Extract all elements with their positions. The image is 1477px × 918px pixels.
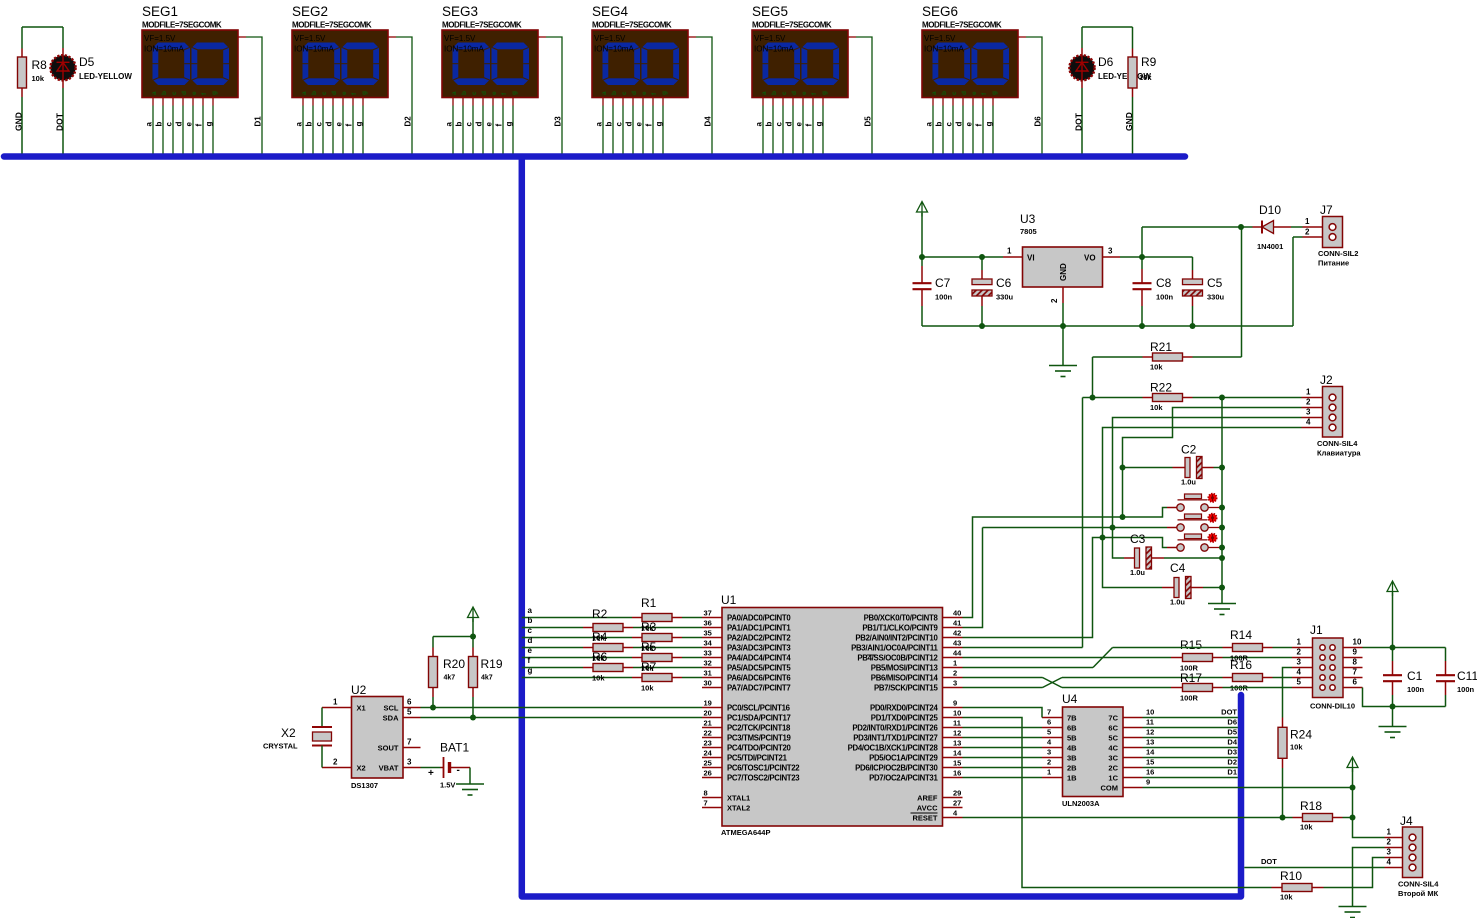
svg-text:8: 8 — [704, 789, 708, 798]
J4 pin 4 wire to bus (DOT) — [1385, 867, 1403, 869]
wire VI rail — [922, 256, 1003, 258]
svg-text:X1: X1 — [357, 703, 366, 712]
svg-text:R4: R4 — [592, 630, 608, 644]
svg-text:D4: D4 — [1227, 738, 1237, 747]
svg-text:22: 22 — [704, 729, 712, 738]
resistor R3 10k (segment c) — [522, 637, 632, 639]
ground (C1) — [1392, 707, 1394, 727]
resistor R6 10k (segment f) — [522, 667, 583, 669]
svg-text:19: 19 — [704, 699, 712, 708]
svg-text:R7: R7 — [641, 660, 657, 674]
svg-text:10k: 10k — [1280, 893, 1293, 902]
svg-text:6C: 6C — [1108, 723, 1118, 732]
svg-text:21: 21 — [704, 719, 712, 728]
svg-text:1: 1 — [1305, 217, 1310, 226]
wire PB6/PB7 X crossover — [963, 677, 1043, 679]
svg-text:CONN-SIL4: CONN-SIL4 — [1317, 439, 1358, 448]
svg-text:R2: R2 — [592, 607, 608, 621]
wire J2 pin 4 to C4 — [1302, 427, 1323, 429]
resistor R9 — [1132, 27, 1134, 49]
svg-text:10k: 10k — [32, 74, 45, 83]
svg-text:C8: C8 — [1156, 276, 1172, 290]
svg-text:R3: R3 — [641, 620, 657, 634]
svg-text:SEG5: SEG5 — [752, 4, 788, 19]
resistor R1 10k (segment a) — [522, 617, 632, 619]
resistor R2 10k (segment b) — [522, 627, 583, 629]
svg-text:DOT: DOT — [1221, 708, 1237, 717]
svg-text:J7: J7 — [1320, 203, 1333, 217]
wire SDA to U1 — [421, 717, 703, 719]
push button SW2 — [1185, 514, 1202, 519]
U4 pin 10 7C — [1123, 717, 1143, 719]
svg-text:D3: D3 — [554, 116, 563, 127]
wire U1 PD7 to U4 1B — [963, 777, 1043, 779]
svg-text:SEG1: SEG1 — [142, 4, 178, 19]
svg-text:10: 10 — [1146, 708, 1154, 717]
junction dots (J4 area) — [1280, 815, 1286, 821]
svg-text:10: 10 — [953, 709, 961, 718]
svg-text:PB0/XCK0/T0/PCINT8: PB0/XCK0/T0/PCINT8 — [864, 613, 939, 622]
7-seg display SEG6 (MODFILE=7SEGCOMK) — [922, 4, 1042, 154]
svg-text:PD7/OC2A/PCINT31: PD7/OC2A/PCINT31 — [869, 773, 938, 782]
svg-text:5: 5 — [1297, 678, 1302, 687]
svg-text:PC0/SCL/PCINT16: PC0/SCL/PCINT16 — [727, 703, 791, 712]
svg-text:D5: D5 — [864, 116, 873, 127]
U1 pin 35 PA2/ADC2/PCINT2 — [702, 637, 722, 639]
U1 pin 27 AVCC — [943, 807, 963, 809]
wire U4 2C to bus (D2) — [1143, 767, 1238, 769]
svg-text:16: 16 — [953, 769, 961, 778]
svg-text:PA0/ADC0/PCINT0: PA0/ADC0/PCINT0 — [727, 613, 791, 622]
svg-text:DOT: DOT — [55, 112, 65, 131]
resistor R18 10k — [1283, 817, 1293, 819]
J1 right stubs 9,8,7 (nc) — [1343, 657, 1363, 659]
svg-text:1N4001: 1N4001 — [1257, 242, 1283, 251]
crystal X2 — [321, 708, 323, 728]
svg-text:3: 3 — [1297, 658, 1302, 667]
svg-text:R8: R8 — [32, 58, 48, 72]
svg-text:GND: GND — [1124, 112, 1134, 131]
wire VO to D10 rail — [1141, 227, 1143, 257]
svg-text:R5: R5 — [641, 640, 657, 654]
svg-text:C6: C6 — [996, 276, 1012, 290]
U1 pin 14 PD5/OC1A/PCINT29 — [943, 757, 963, 759]
svg-text:R15: R15 — [1180, 638, 1202, 652]
svg-text:MODFILE=7SEGCOMK: MODFILE=7SEGCOMK — [592, 21, 672, 30]
svg-text:-: - — [457, 765, 460, 776]
svg-text:AREF: AREF — [917, 793, 938, 802]
ground (keypad) — [1208, 604, 1236, 615]
diode D10 1N4001 — [1253, 226, 1263, 228]
svg-text:C11: C11 — [1457, 669, 1477, 683]
J4 pin 3 wire to R10 — [1385, 857, 1403, 859]
J1 pin 10 wire to C1 node — [1343, 647, 1363, 649]
junction dots (U3 area) — [919, 254, 925, 260]
svg-text:J1: J1 — [1310, 623, 1323, 637]
svg-text:29: 29 — [953, 789, 961, 798]
U4 pin 16 1C — [1123, 777, 1143, 779]
svg-text:1: 1 — [1306, 388, 1311, 397]
U4 pin 7 7B — [1042, 717, 1063, 719]
U1 pin 4 RESET — [943, 817, 963, 819]
svg-text:5: 5 — [1047, 728, 1051, 737]
svg-text:D10: D10 — [1259, 203, 1281, 217]
power +V arrow (R19/R20) — [468, 607, 479, 618]
svg-text:4C: 4C — [1108, 743, 1118, 752]
svg-text:1: 1 — [1297, 638, 1302, 647]
wire U1 PD0 to U4 7B — [963, 708, 1043, 718]
svg-text:12: 12 — [1146, 728, 1154, 737]
wire U1 PD1 to R10 (long route) — [963, 718, 1272, 888]
svg-text:6B: 6B — [1067, 723, 1077, 732]
resistor R21 10k — [1143, 356, 1153, 358]
svg-text:+: + — [428, 768, 434, 779]
svg-text:100n: 100n — [1457, 685, 1475, 694]
svg-text:U1: U1 — [721, 593, 737, 607]
svg-text:PC4/TDO/PCINT20: PC4/TDO/PCINT20 — [727, 743, 791, 752]
svg-text:SEG6: SEG6 — [922, 4, 958, 19]
svg-text:PA7/ADC7/PCINT7: PA7/ADC7/PCINT7 — [727, 683, 790, 692]
svg-text:e: e — [528, 646, 533, 655]
svg-text:6: 6 — [1353, 678, 1358, 687]
resistor R5 10k (segment e) — [522, 657, 632, 659]
svg-text:MODFILE=7SEGCOMK: MODFILE=7SEGCOMK — [142, 21, 222, 30]
svg-text:U3: U3 — [1020, 212, 1036, 226]
svg-text:VBAT: VBAT — [379, 763, 399, 772]
capacitor C1 100n — [1392, 648, 1394, 662]
svg-text:MODFILE=7SEGCOMK: MODFILE=7SEGCOMK — [442, 21, 522, 30]
U1 pin 36 PA1/ADC1/PCINT1 — [702, 627, 722, 629]
svg-text:C7: C7 — [935, 276, 951, 290]
svg-text:1: 1 — [1007, 247, 1012, 256]
svg-text:33: 33 — [704, 649, 712, 658]
wire J2 pin 3 to C3 — [1302, 417, 1323, 419]
svg-text:PA3/ADC3/PCINT3: PA3/ADC3/PCINT3 — [727, 643, 791, 652]
svg-text:7: 7 — [704, 799, 708, 808]
svg-text:D2: D2 — [1227, 758, 1237, 767]
svg-text:GND: GND — [1059, 263, 1068, 281]
svg-text:PB2/AIN0/INT2/PCINT10: PB2/AIN0/INT2/PCINT10 — [855, 633, 938, 642]
svg-text:c: c — [528, 626, 533, 635]
svg-text:2: 2 — [333, 758, 338, 767]
resistor R20 4k7 — [432, 697, 434, 708]
svg-text:5B: 5B — [1067, 733, 1077, 742]
svg-text:3: 3 — [407, 758, 412, 767]
svg-text:RESET: RESET — [912, 813, 937, 822]
U1 pin 20 PC1/SDA/PCINT17 — [702, 717, 722, 719]
U1 pin 13 PD4/OC1B/XCK1/PCINT28 — [943, 747, 963, 749]
resistor R10 10k — [1272, 887, 1283, 889]
svg-text:PC7/TOSC2/PCINT23: PC7/TOSC2/PCINT23 — [727, 773, 800, 782]
U1 pin 15 PD6/ICP/OC2B/PCINT30 — [943, 767, 963, 769]
svg-text:PC3/TMS/PCINT19: PC3/TMS/PCINT19 — [727, 733, 791, 742]
U1 pin 9 PD0/RXD0/PCINT24 — [943, 707, 963, 709]
svg-text:PD0/RXD0/PCINT24: PD0/RXD0/PCINT24 — [870, 703, 939, 712]
power +V arrow (COM/R18) — [1347, 757, 1358, 768]
U4 pin 9 COM — [1123, 787, 1143, 789]
svg-text:PC6/TOSC1/PCINT22: PC6/TOSC1/PCINT22 — [727, 763, 800, 772]
svg-text:1: 1 — [1387, 828, 1392, 837]
svg-text:25: 25 — [704, 759, 712, 768]
resistor R24 10k — [1282, 718, 1284, 728]
wire U4 3C to bus (D3) — [1143, 757, 1238, 759]
svg-text:11: 11 — [1146, 718, 1154, 727]
J1 pin 3 wire to R24 — [1292, 667, 1313, 669]
wire U4 4C to bus (D4) — [1143, 747, 1238, 749]
svg-text:20: 20 — [704, 709, 712, 718]
svg-text:6: 6 — [407, 698, 412, 707]
svg-text:PA5/ADC5/PCINT5: PA5/ADC5/PCINT5 — [727, 663, 791, 672]
capacitor C11 100n — [1393, 647, 1446, 649]
svg-text:R14: R14 — [1230, 628, 1252, 642]
svg-text:9: 9 — [1146, 778, 1150, 787]
7-seg display SEG3 (MODFILE=7SEGCOMK) — [442, 4, 562, 154]
svg-text:PB6/MISO/PCINT14: PB6/MISO/PCINT14 — [871, 673, 939, 682]
wire U4 6C to bus (D6) — [1143, 727, 1238, 729]
svg-text:3: 3 — [1387, 848, 1392, 857]
svg-text:PA4/ADC4/PCINT4: PA4/ADC4/PCINT4 — [727, 653, 791, 662]
svg-text:AVCC: AVCC — [917, 803, 938, 812]
svg-text:2: 2 — [1305, 228, 1310, 237]
svg-text:R1: R1 — [641, 596, 657, 610]
svg-text:U2: U2 — [351, 683, 367, 697]
U4 pin 5 5B — [1042, 737, 1063, 739]
svg-text:30: 30 — [704, 679, 712, 688]
svg-text:PD6/ICP/OC2B/PCINT30: PD6/ICP/OC2B/PCINT30 — [855, 763, 938, 772]
U2 pin 1 X1 — [322, 707, 352, 709]
wire J2 pin 2 to C2/key column — [1302, 407, 1323, 409]
svg-text:100n: 100n — [1156, 293, 1174, 302]
U1 pin 25 PC6/TOSC1/PCINT22 — [702, 767, 722, 769]
svg-text:8: 8 — [1353, 658, 1358, 667]
resistor R14 100R — [1223, 647, 1233, 649]
U1 pin 22 PC3/TMS/PCINT19 — [702, 737, 722, 739]
svg-text:VI: VI — [1027, 254, 1035, 263]
J4 pin 2 wire to ground — [1385, 847, 1403, 849]
svg-text:b: b — [528, 616, 533, 625]
svg-text:10k: 10k — [1290, 743, 1303, 752]
bus: vertical + bottom + right riser — [522, 157, 1241, 897]
svg-text:MODFILE=7SEGCOMK: MODFILE=7SEGCOMK — [292, 21, 372, 30]
connector J2 CONN-SIL4 — [1323, 387, 1343, 438]
svg-text:R17: R17 — [1180, 671, 1202, 685]
svg-text:10k: 10k — [1150, 403, 1163, 412]
svg-text:42: 42 — [953, 629, 961, 638]
svg-text:C3: C3 — [1130, 532, 1146, 546]
svg-text:PC2/TCK/PCINT18: PC2/TCK/PCINT18 — [727, 723, 791, 732]
wire GND rail bottom — [922, 325, 1293, 327]
svg-text:BAT1: BAT1 — [440, 741, 469, 755]
U1 pin 40 PB0/XCK0/T0/PCINT8 — [943, 617, 963, 619]
U2 pin 2 X2 — [322, 767, 352, 769]
wire U4 7C to bus (DOT) — [1143, 717, 1238, 719]
keypad ground rail — [1221, 398, 1223, 604]
U2 pin 6 SCL — [403, 707, 421, 709]
svg-text:D1: D1 — [1227, 768, 1237, 777]
U4 pin 6 6B — [1042, 727, 1063, 729]
U1 pin 1 PB5/MOSI/PCINT13 — [943, 667, 963, 669]
7-seg display SEG2 (MODFILE=7SEGCOMK) — [292, 4, 412, 154]
U4 pin 1 1B — [1042, 777, 1063, 779]
J1 pin 6 wire to gnd node — [1343, 687, 1363, 689]
power +V arrow (U3 input) — [917, 202, 928, 213]
svg-text:5: 5 — [407, 708, 412, 717]
resistor R16 100R — [1223, 677, 1233, 679]
svg-text:4k7: 4k7 — [481, 675, 493, 682]
svg-text:2: 2 — [953, 669, 957, 678]
U4 pin 2 2B — [1042, 767, 1063, 769]
svg-text:C4: C4 — [1170, 561, 1186, 575]
U2 pin 7 SOUT (nc) — [403, 747, 421, 749]
resistor R22 10k — [1143, 397, 1153, 399]
svg-text:7805: 7805 — [1020, 227, 1037, 236]
capacitor C4 1.0u — [1162, 587, 1174, 589]
svg-text:10k: 10k — [592, 674, 605, 683]
svg-text:D6: D6 — [1034, 116, 1043, 127]
svg-text:14: 14 — [953, 749, 962, 758]
svg-text:CONN-DIL10: CONN-DIL10 — [1310, 702, 1355, 711]
U1 pin 23 PC4/TDO/PCINT20 — [702, 747, 722, 749]
svg-text:PB3/AIN1/OC0A/PCINT11: PB3/AIN1/OC0A/PCINT11 — [851, 643, 938, 652]
svg-text:PB5/MOSI/PCINT13: PB5/MOSI/PCINT13 — [871, 663, 939, 672]
svg-text:2C: 2C — [1108, 763, 1118, 772]
svg-text:PA6/ADC6/PCINT6: PA6/ADC6/PCINT6 — [727, 673, 791, 682]
U3 pin 2 + ground — [1062, 287, 1064, 303]
svg-text:10k: 10k — [1139, 73, 1152, 82]
svg-text:1.5V: 1.5V — [440, 781, 455, 790]
svg-text:3C: 3C — [1108, 753, 1118, 762]
svg-text:D6: D6 — [1098, 55, 1114, 69]
resistor R4 10k (segment d) — [522, 647, 583, 649]
push button SW1 — [1185, 494, 1202, 499]
svg-text:1.0u: 1.0u — [1170, 598, 1185, 607]
svg-text:J4: J4 — [1400, 814, 1413, 828]
svg-text:10: 10 — [1353, 638, 1362, 647]
junction dots (keypad) — [1090, 395, 1096, 401]
wire U1 PD5 to U4 3B — [963, 757, 1043, 759]
U1 pin 42 PB2/AIN0/INT2/PCINT10 — [943, 637, 963, 639]
svg-text:2: 2 — [1306, 398, 1311, 407]
svg-text:1: 1 — [333, 698, 338, 707]
svg-text:f: f — [528, 656, 531, 665]
U1 pin 37 PA0/ADC0/PCINT0 — [702, 617, 722, 619]
LED D6 (LED-YELLOW) — [1081, 27, 1083, 48]
svg-text:SCL: SCL — [384, 703, 399, 712]
capacitor C2 1.0u — [1123, 467, 1173, 469]
svg-text:2B: 2B — [1067, 763, 1077, 772]
connector J1 CONN-DIL10 — [1313, 638, 1344, 698]
svg-text:CRYSTAL: CRYSTAL — [263, 742, 298, 751]
svg-text:1.0u: 1.0u — [1130, 568, 1145, 577]
wire R8/D5 top link — [22, 26, 63, 28]
U4 pin 14 3C — [1123, 757, 1143, 759]
svg-text:Второй МК: Второй МК — [1398, 889, 1439, 898]
U4 pin 11 6C — [1123, 727, 1143, 729]
svg-text:13: 13 — [1146, 738, 1154, 747]
svg-text:R10: R10 — [1280, 869, 1302, 883]
capacitor C8 100n — [1141, 257, 1143, 269]
svg-text:11: 11 — [953, 719, 961, 728]
svg-text:PD2/INT0/RXD1/PCINT26: PD2/INT0/RXD1/PCINT26 — [852, 723, 938, 732]
svg-text:D3: D3 — [1227, 748, 1237, 757]
svg-text:U4: U4 — [1062, 692, 1078, 706]
junction dots (U2 area) — [430, 705, 436, 711]
connector J7 CONN-SIL2 — [1323, 217, 1343, 248]
wire PB4 to R15 — [963, 657, 1172, 659]
battery BAT1 1.5V — [421, 767, 441, 769]
wire net J2.1/R22 down to U1 PB3 — [1083, 397, 1093, 399]
U1 pin 12 PD3/INT1/TXD1/PCINT27 — [943, 737, 963, 739]
svg-text:R6: R6 — [592, 650, 608, 664]
U1 pin 10 PD1/TXD0/PCINT25 — [943, 717, 963, 719]
resistor R17 100R — [1171, 687, 1183, 689]
U1 pin 8 XTAL1 — [702, 797, 722, 799]
U1 pin 34 PA3/ADC3/PCINT3 — [702, 647, 722, 649]
svg-text:X2: X2 — [281, 726, 296, 740]
wire button3 left / row3 to U1 PB2 — [1167, 547, 1177, 549]
wire +V node down to R18/J4.1 — [1352, 788, 1354, 818]
svg-text:7B: 7B — [1067, 713, 1077, 722]
svg-text:C5: C5 — [1207, 276, 1223, 290]
svg-text:R20: R20 — [443, 657, 465, 671]
svg-text:43: 43 — [953, 639, 961, 648]
svg-text:R19: R19 — [481, 657, 503, 671]
svg-text:g: g — [528, 666, 533, 675]
connector J4 CONN-SIL4 — [1403, 827, 1423, 878]
wire D6/R9 top link — [1082, 26, 1133, 28]
svg-text:37: 37 — [704, 609, 712, 618]
svg-text:100n: 100n — [935, 293, 953, 302]
svg-text:SOUT: SOUT — [378, 743, 399, 752]
U1 pin 3 PB7/SCK/PCINT15 — [943, 687, 963, 689]
svg-text:16: 16 — [1146, 768, 1154, 777]
svg-text:PD3/INT1/TXD1/PCINT27: PD3/INT1/TXD1/PCINT27 — [853, 733, 937, 742]
RTC U2 DS1307 — [352, 697, 404, 779]
U4 pin 4 4B — [1042, 747, 1063, 749]
svg-text:15: 15 — [953, 759, 961, 768]
push button SW3 — [1185, 534, 1202, 539]
svg-text:7: 7 — [1047, 708, 1051, 717]
svg-text:PB7/SCK/PCINT15: PB7/SCK/PCINT15 — [874, 683, 938, 692]
U1 pin 21 PC2/TCK/PCINT18 — [702, 727, 722, 729]
J4 pin 1 stub — [1385, 837, 1403, 839]
capacitor C6 330u (polarized) — [981, 257, 983, 270]
svg-text:CONN-SIL4: CONN-SIL4 — [1398, 880, 1439, 889]
svg-text:23: 23 — [704, 739, 712, 748]
U1 pin 24 PC5/TDI/PCINT21 — [702, 757, 722, 759]
U2 pin 3 VBAT — [403, 767, 421, 769]
svg-text:40: 40 — [953, 609, 961, 618]
svg-text:SEG3: SEG3 — [442, 4, 478, 19]
resistor R7 10k (segment g) — [522, 677, 632, 679]
U1 pin 2 PB6/MISO/PCINT14 — [943, 677, 963, 679]
U1 pin 11 PD2/INT0/RXD1/PCINT26 — [943, 727, 963, 729]
wire PB5 with diagonal jog to R14 — [963, 667, 1094, 669]
svg-text:PD5/OC1A/PCINT29: PD5/OC1A/PCINT29 — [869, 753, 938, 762]
capacitor C7 100n — [921, 257, 923, 266]
wire U1 PD2 to U4 6B — [963, 727, 1043, 729]
svg-text:100R: 100R — [1180, 694, 1199, 703]
svg-text:4: 4 — [1387, 858, 1392, 867]
wire U1 PD6 to U4 2B — [963, 767, 1043, 769]
resistor R15 100R — [1171, 657, 1183, 659]
resistor R8 — [21, 27, 23, 49]
svg-text:26: 26 — [704, 769, 712, 778]
U3 pin 3 — [1103, 256, 1121, 258]
wire button2 left to PB1 row — [1167, 527, 1177, 529]
svg-text:DOT: DOT — [1261, 857, 1277, 866]
svg-text:1B: 1B — [1067, 773, 1077, 782]
